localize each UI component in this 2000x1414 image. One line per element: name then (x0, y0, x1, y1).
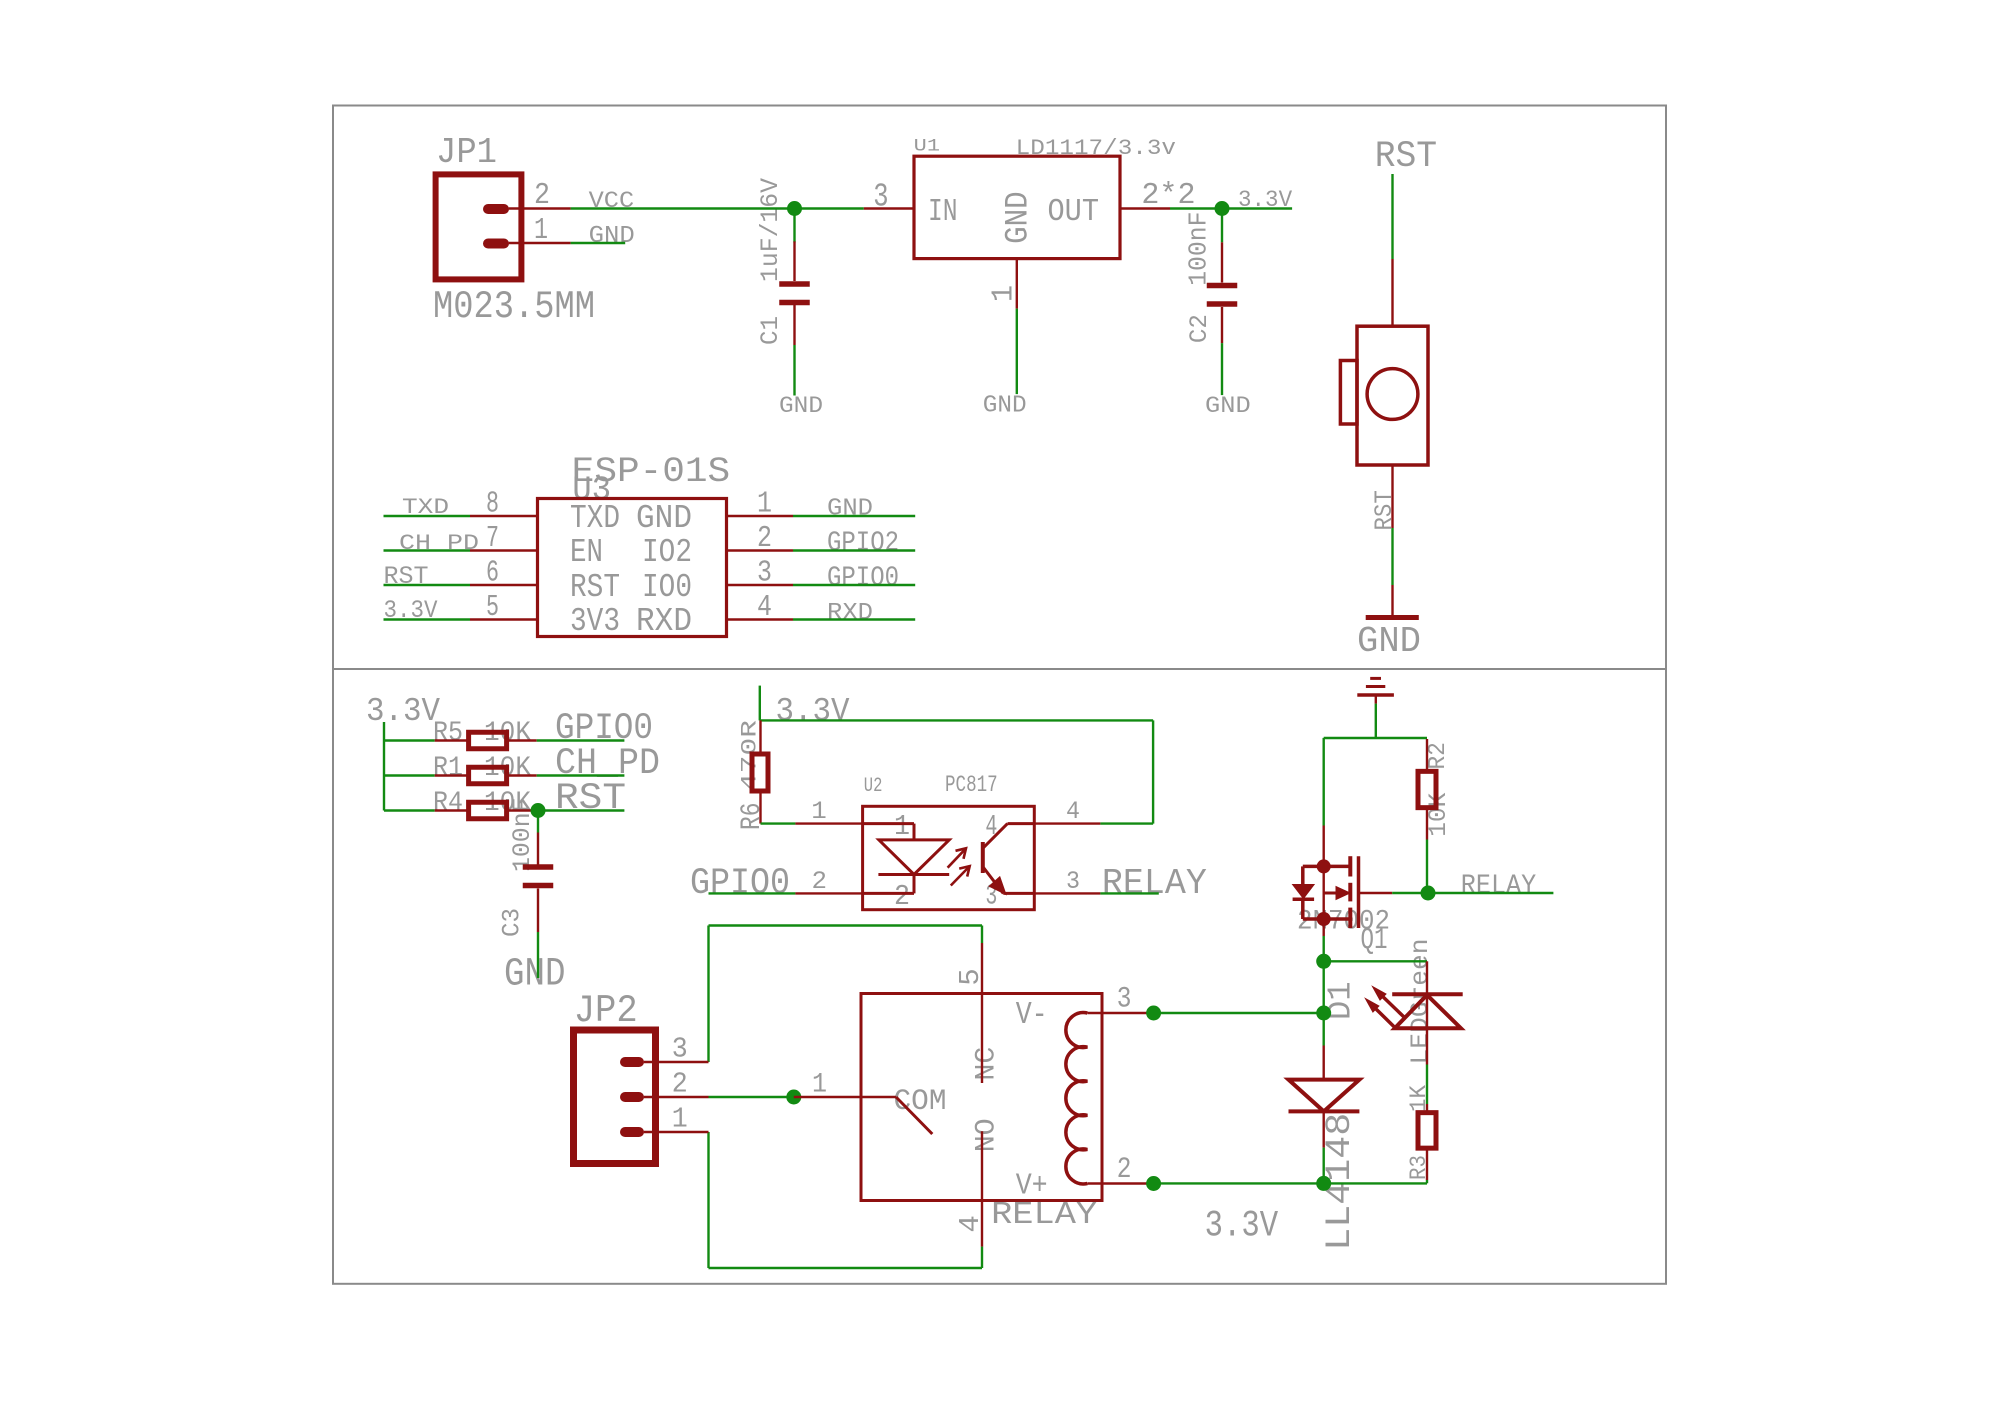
svg-text:2: 2 (1117, 1152, 1132, 1186)
svg-text:2: 2 (894, 880, 910, 913)
svg-text:GND: GND (1000, 191, 1037, 244)
svg-text:R6: R6 (737, 803, 768, 831)
svg-text:IO0: IO0 (642, 569, 692, 607)
svg-text:NC: NC (971, 1047, 1002, 1081)
svg-text:3: 3 (672, 1033, 688, 1066)
svg-text:1: 1 (894, 810, 910, 843)
svg-text:1uF/16V: 1uF/16V (756, 177, 785, 282)
svg-text:C1: C1 (756, 316, 785, 345)
svg-text:GND: GND (504, 953, 566, 998)
svg-text:RST: RST (384, 563, 429, 591)
svg-text:RST: RST (1375, 136, 1437, 178)
svg-text:R4: R4 (433, 788, 463, 819)
svg-text:3.3V: 3.3V (366, 693, 440, 731)
svg-text:PC817: PC817 (945, 772, 998, 798)
svg-text:CH_PD: CH_PD (399, 530, 479, 556)
svg-text:GPIO0: GPIO0 (827, 563, 899, 594)
svg-text:100nF: 100nF (1184, 211, 1214, 285)
svg-text:Q1: Q1 (1361, 923, 1388, 958)
svg-text:R5: R5 (433, 718, 463, 749)
svg-text:C2: C2 (1185, 314, 1214, 343)
svg-text:3.3V: 3.3V (384, 597, 438, 625)
svg-text:OUT: OUT (1048, 194, 1100, 230)
svg-text:3: 3 (873, 179, 888, 217)
svg-text:1: 1 (811, 797, 827, 826)
svg-text:RELAY: RELAY (991, 1197, 1097, 1233)
svg-text:R2: R2 (1425, 742, 1452, 770)
svg-text:C3: C3 (498, 908, 527, 937)
svg-text:GND: GND (983, 393, 1027, 420)
svg-text:RST: RST (1371, 490, 1399, 530)
svg-text:10K: 10K (1424, 792, 1453, 837)
svg-text:3.3V: 3.3V (776, 693, 850, 731)
svg-text:GND: GND (827, 496, 873, 523)
svg-text:R1: R1 (433, 753, 463, 784)
svg-text:JP2: JP2 (574, 988, 638, 1033)
svg-text:GND: GND (636, 500, 692, 538)
svg-text:RELAY: RELAY (1461, 871, 1536, 902)
svg-text:VCC: VCC (589, 188, 635, 215)
svg-text:2: 2 (812, 867, 828, 896)
svg-text:U2: U2 (864, 775, 883, 798)
svg-text:TXD: TXD (570, 500, 620, 538)
svg-text:U1: U1 (914, 138, 940, 157)
svg-text:3: 3 (1066, 867, 1080, 896)
svg-text:3.3V: 3.3V (1205, 1205, 1279, 1247)
svg-text:2: 2 (672, 1068, 688, 1101)
svg-text:EN: EN (570, 534, 603, 572)
svg-text:V-: V- (1016, 998, 1048, 1033)
svg-text:GND: GND (1205, 393, 1251, 419)
svg-text:GND: GND (779, 393, 823, 419)
svg-text:RST: RST (570, 569, 620, 607)
svg-text:RELAY: RELAY (1102, 863, 1207, 904)
svg-text:RST: RST (555, 778, 626, 820)
svg-text:JP1: JP1 (436, 132, 497, 173)
svg-text:NO: NO (971, 1118, 1002, 1152)
svg-text:GND: GND (589, 223, 635, 250)
svg-text:IO2: IO2 (642, 534, 692, 572)
svg-text:1: 1 (672, 1103, 688, 1136)
svg-text:GPIO2: GPIO2 (827, 528, 899, 559)
svg-text:GND: GND (1357, 621, 1421, 662)
svg-text:GPIO0: GPIO0 (690, 863, 790, 905)
svg-text:3: 3 (1117, 982, 1132, 1016)
svg-text:4: 4 (1066, 797, 1080, 826)
svg-text:M023.5MM: M023.5MM (433, 284, 595, 329)
svg-text:RXD: RXD (827, 600, 873, 627)
svg-text:IN: IN (928, 194, 958, 230)
